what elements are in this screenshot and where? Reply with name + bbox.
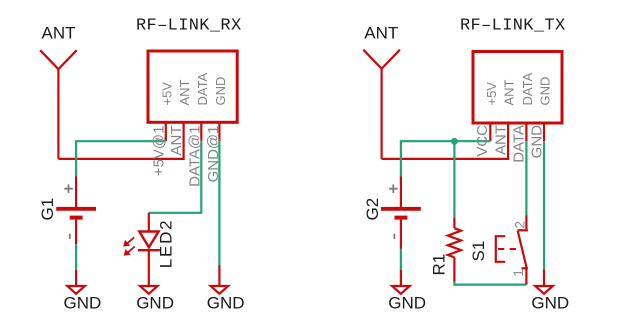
wire battery G2 to GND (green segment): [400, 249, 402, 270]
wire red stub to GND3: [218, 265, 220, 285]
wire +5V pin to battery G1 (green): [76, 141, 166, 176]
wire red stub to GND5: [543, 270, 545, 286]
antenna ANT right: [363, 50, 400, 159]
module U1 RF-LINK_RX body: [148, 51, 237, 122]
wire antenna to TX ANT pin: [382, 123, 509, 159]
pin stub RX +5V: [165, 123, 167, 142]
svg-text:GND: GND: [528, 125, 545, 159]
svg-text:ANT: ANT: [42, 24, 76, 43]
svg-text:G2: G2: [363, 198, 382, 221]
wire VCC junction down to R1 (green): [453, 141, 455, 217]
wire red stub to GND4: [400, 270, 402, 285]
svg-text:ANT: ANT: [502, 79, 517, 105]
svg-text:DATA: DATA: [520, 72, 535, 105]
ground GND5: [535, 286, 553, 294]
svg-text:LED2: LED2: [156, 219, 175, 269]
svg-text:1: 1: [510, 269, 526, 277]
wire GND pin down (green): [218, 141, 220, 265]
ground GND1: [67, 286, 85, 294]
wire TX GND pin down (green): [543, 141, 545, 269]
wire red stub to GND1: [75, 270, 77, 285]
svg-text:VCC: VCC: [474, 125, 491, 157]
wire DATA pin to switch (green): [525, 141, 527, 215]
svg-text:+5V@1: +5V@1: [151, 126, 168, 177]
module U2 RF-LINK_TX body: [473, 52, 562, 124]
svg-text:ANT: ANT: [177, 79, 192, 105]
switch S1: [496, 216, 528, 285]
battery G2: [381, 177, 421, 249]
svg-text:ANT: ANT: [492, 125, 509, 155]
svg-text:GND: GND: [136, 293, 174, 312]
svg-text:2: 2: [511, 221, 527, 229]
wire VCC pin to battery G2 (green): [401, 141, 490, 176]
wire DATA pin to LED2 (green): [149, 141, 202, 213]
svg-text:GND: GND: [207, 293, 245, 312]
svg-text:ANT: ANT: [168, 126, 185, 156]
wire antenna to RX ANT pin: [58, 123, 183, 159]
pin stub TX +5V: [489, 123, 491, 141]
svg-text:GND: GND: [388, 293, 426, 312]
svg-text:RF–LINK_RX: RF–LINK_RX: [136, 16, 242, 35]
wire R1 bottom to switch pin1 (green): [454, 282, 526, 285]
svg-text:DATA: DATA: [511, 125, 528, 163]
svg-text:ANT: ANT: [364, 24, 398, 43]
ground GND2: [140, 286, 158, 294]
svg-text:+5V: +5V: [484, 82, 499, 106]
svg-text:G1: G1: [38, 198, 57, 221]
ground GND4: [392, 286, 410, 294]
svg-text:S1: S1: [469, 241, 488, 262]
battery G1: [56, 177, 96, 245]
svg-text:R1: R1: [429, 254, 448, 276]
pin stub RX DATA: [200, 123, 202, 142]
antenna ANT left: [40, 50, 77, 159]
pin stub TX DATA: [525, 123, 527, 141]
wire battery G1 to GND (green segment): [75, 244, 77, 270]
svg-text:RF–LINK_TX: RF–LINK_TX: [460, 16, 566, 35]
ground GND3: [211, 286, 229, 294]
pin stub TX GND: [543, 123, 545, 141]
svg-text:GND: GND: [538, 77, 553, 106]
svg-text:DATA@1: DATA@1: [187, 126, 204, 187]
svg-text:DATA: DATA: [195, 72, 210, 105]
LED LED2: [124, 213, 160, 285]
resistor R1: [448, 217, 461, 281]
pin stub RX GND: [218, 123, 220, 142]
svg-text:GND: GND: [531, 293, 569, 312]
svg-text:GND: GND: [213, 77, 228, 106]
svg-text:+5V: +5V: [159, 82, 174, 106]
svg-text:GND: GND: [64, 293, 102, 312]
node junction dot VCC: [451, 138, 458, 145]
